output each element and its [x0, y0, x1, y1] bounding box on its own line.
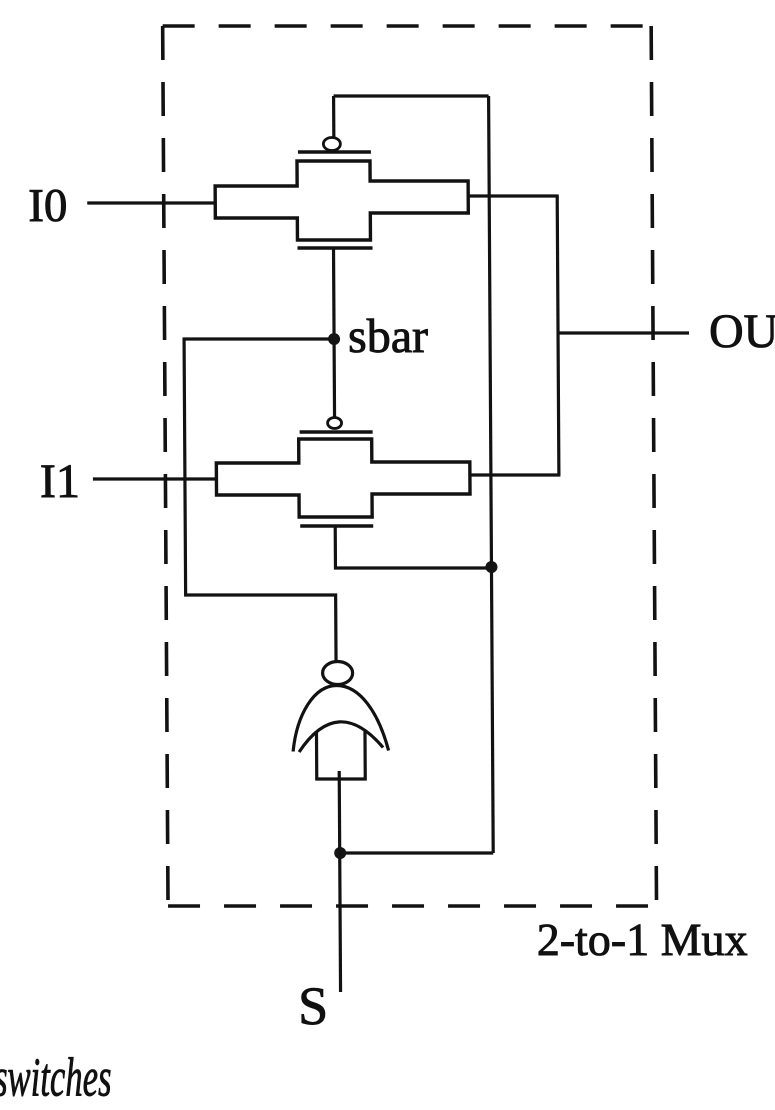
inverter U1 dome body	[293, 686, 389, 752]
wire I0 input	[87, 201, 216, 204]
wire TG1 bubble to top rail	[332, 96, 335, 138]
svg-text:I1: I1	[40, 455, 80, 508]
inverter U1 inner arc	[299, 722, 383, 752]
junction dot S node	[334, 847, 346, 859]
transmission gate TG2 body (I1 pass gate)	[216, 439, 470, 517]
wire TG1 output to OUT rail	[468, 194, 559, 197]
TG1 NMOS gate plate	[298, 246, 373, 249]
junction dot on S line	[485, 561, 497, 573]
dashed box right border	[651, 26, 656, 906]
TG2 PMOS gate bubble	[328, 418, 342, 429]
TG1 PMOS gate plate	[298, 150, 371, 153]
wire S input	[338, 853, 342, 992]
svg-text:S: S	[298, 976, 328, 1036]
wire I1 input	[93, 477, 218, 480]
svg-text:OUT: OUT	[709, 305, 775, 358]
dashed box top border	[163, 24, 652, 28]
TG2 PMOS gate plate	[300, 430, 373, 433]
wire OUT	[558, 331, 689, 334]
TG1 PMOS gate bubble	[323, 138, 340, 151]
wire TG1 NMOS gate down to sbar and TG2 bubble	[334, 248, 335, 418]
transmission gate TG1 body (I0 pass gate)	[215, 161, 468, 240]
dashed box bottom border	[168, 904, 656, 908]
wire TG2 output to OUT rail	[470, 473, 561, 476]
wire S node horizontal	[340, 851, 493, 854]
wire inverter to S node	[338, 771, 342, 853]
wire top horizontal to S line	[334, 94, 489, 97]
svg-text:switches: switches	[0, 1046, 112, 1107]
svg-text:I0: I0	[28, 180, 67, 232]
svg-text:2-to-1 Mux: 2-to-1 Mux	[537, 914, 748, 965]
wire S vertical line (top rail to S node)	[489, 96, 494, 853]
wire TG2 NMOS gate to S line	[335, 526, 491, 568]
node sbar junction dot	[328, 333, 340, 345]
dashed box left border	[163, 26, 168, 906]
TG2 NMOS gate plate	[300, 524, 373, 527]
inverter U1 neck	[316, 731, 365, 779]
wire OUT vertical rail	[557, 196, 559, 475]
inverter U1 output bubble	[323, 662, 353, 685]
wire sbar bypass (left around TG2 to inverter output)	[184, 339, 336, 661]
svg-text:sbar: sbar	[348, 310, 428, 363]
